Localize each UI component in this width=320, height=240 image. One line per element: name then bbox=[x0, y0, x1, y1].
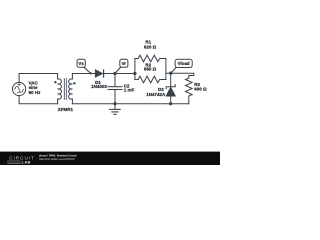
triangle apex up bbox=[166, 87, 175, 96]
bottom rail: secondary to R3 bbox=[72, 103, 188, 105]
svg-text:Vload: Vload bbox=[178, 61, 190, 66]
capacitor C2 bbox=[108, 74, 122, 104]
core bbox=[64, 79, 66, 100]
diode D1 bbox=[95, 70, 103, 77]
D1 labels bbox=[91, 80, 107, 89]
svg-text:1N4742A: 1N4742A bbox=[146, 92, 166, 97]
zener bar with hooks bbox=[166, 85, 175, 89]
R3 labels bbox=[194, 82, 207, 91]
R1 labels bbox=[144, 40, 157, 50]
footer bar bbox=[0, 152, 220, 165]
secondary winding bbox=[71, 74, 73, 104]
primary phase dot bbox=[54, 81, 56, 83]
wire: Rpar right to Vload node bbox=[166, 72, 171, 74]
Rpar left vertical bbox=[134, 59, 136, 80]
flag Vr bbox=[115, 59, 128, 73]
Vload node junction dot bbox=[169, 72, 172, 75]
svg-text:LAB: LAB bbox=[22, 160, 31, 165]
secondary phase dot bbox=[73, 82, 75, 84]
R2 labels bbox=[144, 62, 157, 71]
wire: source top to primary top bbox=[19, 74, 58, 83]
node Vr junction dot bbox=[113, 72, 116, 75]
wire: Vload node to R3 top (with jog) bbox=[171, 73, 194, 78]
resistor R1 bbox=[135, 55, 166, 62]
resistor R2 bbox=[135, 76, 166, 83]
CircuitLab logo bbox=[7, 155, 35, 164]
wire: source bottom to primary bottom bbox=[19, 96, 58, 104]
D2 bottom junction dot bbox=[169, 102, 172, 105]
Rpar right vertical bbox=[165, 59, 167, 80]
svg-text:600 Ω: 600 Ω bbox=[194, 86, 207, 91]
wire: D1 cathode to Rpar left node bbox=[104, 73, 135, 75]
svg-text:Vs: Vs bbox=[78, 61, 84, 66]
svg-text:1N4003: 1N4003 bbox=[91, 84, 107, 89]
svg-text:http://circuitlab.com/c/554rc5: http://circuitlab.com/c/554rc5 bbox=[39, 157, 75, 161]
zener diode D2 bbox=[166, 73, 175, 104]
C2 labels bbox=[124, 84, 135, 93]
svg-text:XFMR1: XFMR1 bbox=[58, 107, 74, 112]
svg-text:680 Ω: 680 Ω bbox=[144, 67, 157, 72]
primary winding bbox=[57, 74, 59, 104]
svg-text:1 mF: 1 mF bbox=[124, 87, 135, 92]
resistor R3 bbox=[186, 78, 193, 104]
svg-text:60 Hz: 60 Hz bbox=[29, 90, 42, 95]
flag Vload bbox=[171, 59, 193, 73]
ground junction dot bbox=[113, 102, 116, 105]
svg-text:ahsan / DP#1: Nominal Circuit: ahsan / DP#1: Nominal Circuit bbox=[39, 154, 77, 158]
V1 value label: VAC sine 60 Hz bbox=[29, 80, 42, 94]
svg-text:Vr: Vr bbox=[122, 61, 127, 66]
wire: secondary top to D1 anode bbox=[72, 73, 95, 75]
transformer XFMR1 bbox=[54, 74, 76, 104]
svg-text:620 Ω: 620 Ω bbox=[144, 44, 157, 49]
voltage source V1 (VAC) bbox=[13, 82, 26, 95]
D2 labels bbox=[146, 87, 166, 97]
flag Vs bbox=[77, 59, 92, 74]
Rpar left node dot bbox=[133, 72, 136, 75]
ground bbox=[110, 104, 121, 115]
